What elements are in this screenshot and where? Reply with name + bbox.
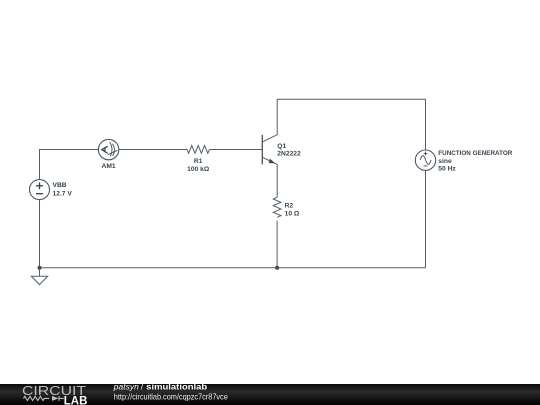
svg-text:12.7 V: 12.7 V xyxy=(53,190,73,197)
svg-text:simulationlab: simulationlab xyxy=(146,382,207,392)
svg-text:10 Ω: 10 Ω xyxy=(285,211,300,218)
svg-text:R1: R1 xyxy=(194,158,203,165)
svg-text:/: / xyxy=(141,382,144,392)
svg-text:AM1: AM1 xyxy=(102,163,116,170)
svg-text:2N2222: 2N2222 xyxy=(277,151,301,158)
svg-text:50 Hz: 50 Hz xyxy=(438,166,456,173)
svg-text:patsyn: patsyn xyxy=(113,382,139,392)
svg-text:Q1: Q1 xyxy=(277,143,286,150)
svg-text:sine: sine xyxy=(438,158,452,165)
svg-text:R2: R2 xyxy=(285,202,294,209)
svg-text:FUNCTION GENERATOR: FUNCTION GENERATOR xyxy=(438,150,512,157)
svg-text:http://circuitlab.com/cqpzc7cr: http://circuitlab.com/cqpzc7cr87vce xyxy=(114,392,228,401)
svg-text:VBB: VBB xyxy=(53,182,67,189)
svg-text:100 kΩ: 100 kΩ xyxy=(187,166,210,173)
svg-text:LAB: LAB xyxy=(64,395,88,405)
